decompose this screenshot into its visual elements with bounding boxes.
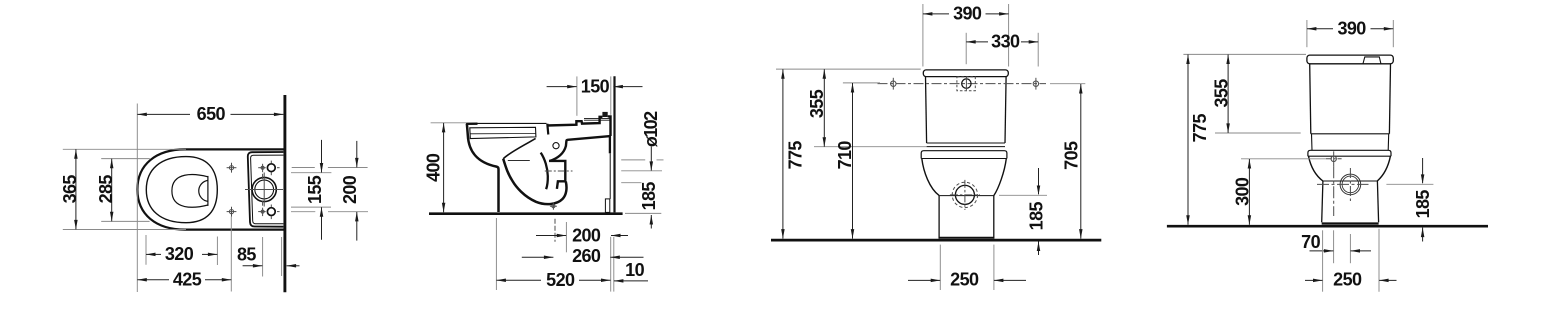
dimension 150 — [547, 86, 577, 88]
wall (top view, right side) — [283, 95, 286, 292]
extension line 185 (outlet center) — [1386, 183, 1433, 185]
svg-text:520: 520 — [546, 270, 575, 290]
extension lines 70 — [1333, 230, 1335, 263]
seat hinge edge — [547, 124, 548, 135]
extension line 320 left — [145, 235, 147, 265]
dimension 200 (section) — [536, 235, 566, 237]
svg-text:650: 650 — [197, 104, 226, 124]
dimension 185 (rear) — [1422, 158, 1424, 183]
extension line 355 bottom — [814, 146, 927, 148]
svg-text:355: 355 — [1211, 79, 1231, 108]
fixing crosshair left — [891, 81, 896, 86]
svg-text:70: 70 — [1301, 232, 1320, 252]
extension line 710 top — [843, 82, 880, 84]
svg-text:775: 775 — [1190, 113, 1210, 142]
pedestal — [1323, 180, 1378, 182]
cistern lid — [923, 70, 1008, 77]
trap back curve — [541, 153, 548, 190]
tank sides — [1310, 64, 1311, 134]
dimension 520 — [496, 279, 541, 281]
svg-text:300: 300 — [1233, 177, 1253, 206]
cistern joint lines — [584, 117, 610, 119]
dimension 390 (front) — [923, 13, 949, 15]
flush distributor circle — [553, 143, 559, 149]
spigot centerline — [545, 170, 573, 172]
svg-text:425: 425 — [173, 270, 202, 290]
extension line 330 right — [1037, 33, 1039, 67]
cistern bench top — [547, 117, 603, 126]
dimension 365 — [75, 149, 77, 229]
tank inner line — [251, 155, 284, 224]
flush valve circle outer — [252, 177, 276, 201]
svg-text:250: 250 — [1333, 269, 1362, 289]
screw hole bottom — [267, 208, 275, 216]
floor extension right — [625, 212, 661, 214]
svg-text:710: 710 — [835, 141, 855, 170]
extension line 150 right (ceramic back) — [610, 76, 612, 115]
dimension 155 — [321, 140, 323, 173]
bowl flange band — [921, 151, 1007, 159]
svg-text:250: 250 — [950, 269, 979, 289]
dimension 775 (front) — [782, 69, 784, 238]
extension lines 250 — [939, 245, 941, 290]
outlet circles — [1340, 174, 1361, 195]
extension line 355 bottom — [1215, 132, 1301, 134]
rim section mid line — [470, 133, 536, 135]
flush pipe circle — [955, 185, 974, 204]
svg-text:ø102: ø102 — [641, 111, 661, 147]
extension lines 250 (rear) — [1322, 230, 1324, 291]
extension line 390 right — [1392, 20, 1394, 47]
wall line (section) — [613, 76, 615, 212]
extension line 705 top — [1050, 83, 1085, 85]
extension line 365 bottom — [63, 229, 186, 231]
svg-text:400: 400 — [424, 153, 444, 182]
svg-text:10: 10 — [625, 260, 644, 280]
flush valve circle inner — [255, 180, 274, 199]
tank crosshair top — [261, 166, 264, 169]
water line — [508, 159, 530, 161]
fixing crosshair — [1331, 156, 1336, 161]
svg-text:185: 185 — [1413, 190, 1433, 219]
extension line 390 left — [922, 4, 924, 67]
extension line lid top — [776, 68, 921, 70]
dimension 400 — [443, 123, 445, 212]
cistern joint line — [1311, 133, 1390, 135]
fixing crosshair right — [1033, 81, 1038, 86]
outlet spigot — [549, 160, 565, 189]
extension lines below floor — [495, 218, 497, 290]
back face below bench — [609, 136, 611, 153]
bowl outer outline — [137, 149, 283, 229]
dimension 300 — [1248, 159, 1250, 225]
rear foot box — [605, 199, 609, 213]
extension line 400 top — [431, 122, 467, 124]
svg-text:390: 390 — [1337, 19, 1366, 39]
extension line left (650/425 ref) — [136, 104, 138, 293]
svg-text:200: 200 — [340, 175, 360, 204]
extension line 390 left — [1306, 20, 1308, 47]
bowl flange band — [1308, 150, 1391, 156]
svg-text:150: 150 — [581, 76, 610, 96]
svg-text:775: 775 — [786, 141, 806, 170]
bowl taper sides — [1309, 156, 1323, 181]
dimension 330 — [966, 41, 988, 43]
dimension 250 (front) — [908, 279, 940, 281]
svg-text:705: 705 — [1061, 141, 1081, 170]
svg-text:260: 260 — [572, 246, 601, 266]
extension line 150 left — [576, 76, 578, 115]
extension line 320 right — [216, 237, 218, 266]
extension lines right of wall (155/200 refs) — [292, 167, 315, 169]
extension line 285 top — [101, 158, 150, 160]
tank crosshair bottom — [261, 210, 264, 213]
rim front and pedestal front outline — [467, 124, 499, 212]
rim section box — [470, 127, 536, 138]
floor line (front view) — [771, 239, 1101, 242]
dimension 705 — [1080, 84, 1082, 239]
bowl crosshair bottom — [229, 210, 233, 214]
svg-text:285: 285 — [96, 175, 116, 204]
dimension 650 — [137, 113, 190, 115]
svg-text:85: 85 — [237, 244, 256, 264]
dimension 710 — [852, 83, 854, 239]
cistern joint lines — [927, 142, 1005, 144]
dimension 390 (rear) — [1307, 28, 1333, 30]
dimension 425 — [137, 279, 169, 281]
extension line 365 top — [63, 148, 186, 150]
dimension 355 (front) — [823, 69, 825, 147]
svg-text:365: 365 — [60, 175, 80, 204]
extension line 425 right — [230, 217, 232, 292]
svg-text:355: 355 — [807, 89, 827, 118]
extension line 285 bottom — [101, 220, 149, 222]
fixture centerline — [878, 83, 1047, 85]
upper bowl sides — [1311, 134, 1314, 151]
dimension 250 (rear) — [1305, 279, 1323, 281]
rim top edge thin part — [478, 122, 547, 124]
svg-text:185: 185 — [639, 182, 659, 211]
lid valve cap — [1363, 57, 1381, 64]
svg-text:390: 390 — [953, 4, 982, 24]
inner front slope — [503, 138, 535, 158]
bowl taper sides — [922, 159, 939, 196]
cistern top back — [608, 116, 611, 136]
floor line (section) — [429, 212, 623, 215]
dimension 185 (front) — [1038, 168, 1040, 194]
seat inner oval — [146, 157, 217, 223]
svg-text:155: 155 — [305, 175, 325, 204]
extension line 390 right — [1008, 4, 1010, 67]
cistern lid tab — [602, 112, 607, 117]
extension line pedestal top / 185 ref — [999, 194, 1047, 196]
svg-text:320: 320 — [165, 244, 194, 264]
pedestal — [939, 195, 994, 197]
bowl sump curve — [503, 159, 566, 204]
fixture vertical centerline — [1333, 166, 1335, 216]
dimension 285 — [111, 159, 113, 222]
drain crosshair at floor — [552, 205, 555, 208]
cistern body sides — [926, 77, 927, 143]
tank outer trapezoid — [248, 152, 284, 227]
push button — [962, 79, 971, 88]
rim top edge thick part — [466, 122, 478, 125]
extension line 85 right (screw centerline) — [262, 237, 264, 277]
svg-text:200: 200 — [572, 225, 601, 245]
extension lines outlet (right of wall) — [621, 159, 645, 161]
flush valve crosshair — [245, 189, 283, 191]
bowl crosshair top — [229, 166, 233, 170]
extension line 300 top (crosshair line) — [1241, 158, 1326, 160]
outlet crosshair — [1317, 183, 1369, 185]
dimension 355 (rear) — [1227, 55, 1229, 133]
floor line (rear view) — [1167, 225, 1488, 228]
svg-text:330: 330 — [991, 32, 1020, 52]
screw hole top — [267, 164, 275, 172]
dimension 260 — [522, 256, 554, 258]
water area shape — [172, 175, 208, 208]
dimension 775 (rear) — [1187, 55, 1189, 225]
extension line lid top — [1183, 53, 1306, 55]
extension line 330 left — [965, 33, 967, 64]
cistern lid — [1307, 55, 1393, 64]
dimension 320 — [146, 253, 161, 255]
svg-text:185: 185 — [1026, 201, 1046, 230]
bench bottom / bowl back — [550, 136, 611, 161]
dimension 200 (top view) — [356, 141, 358, 168]
ceramic back edge line — [281, 237, 283, 276]
